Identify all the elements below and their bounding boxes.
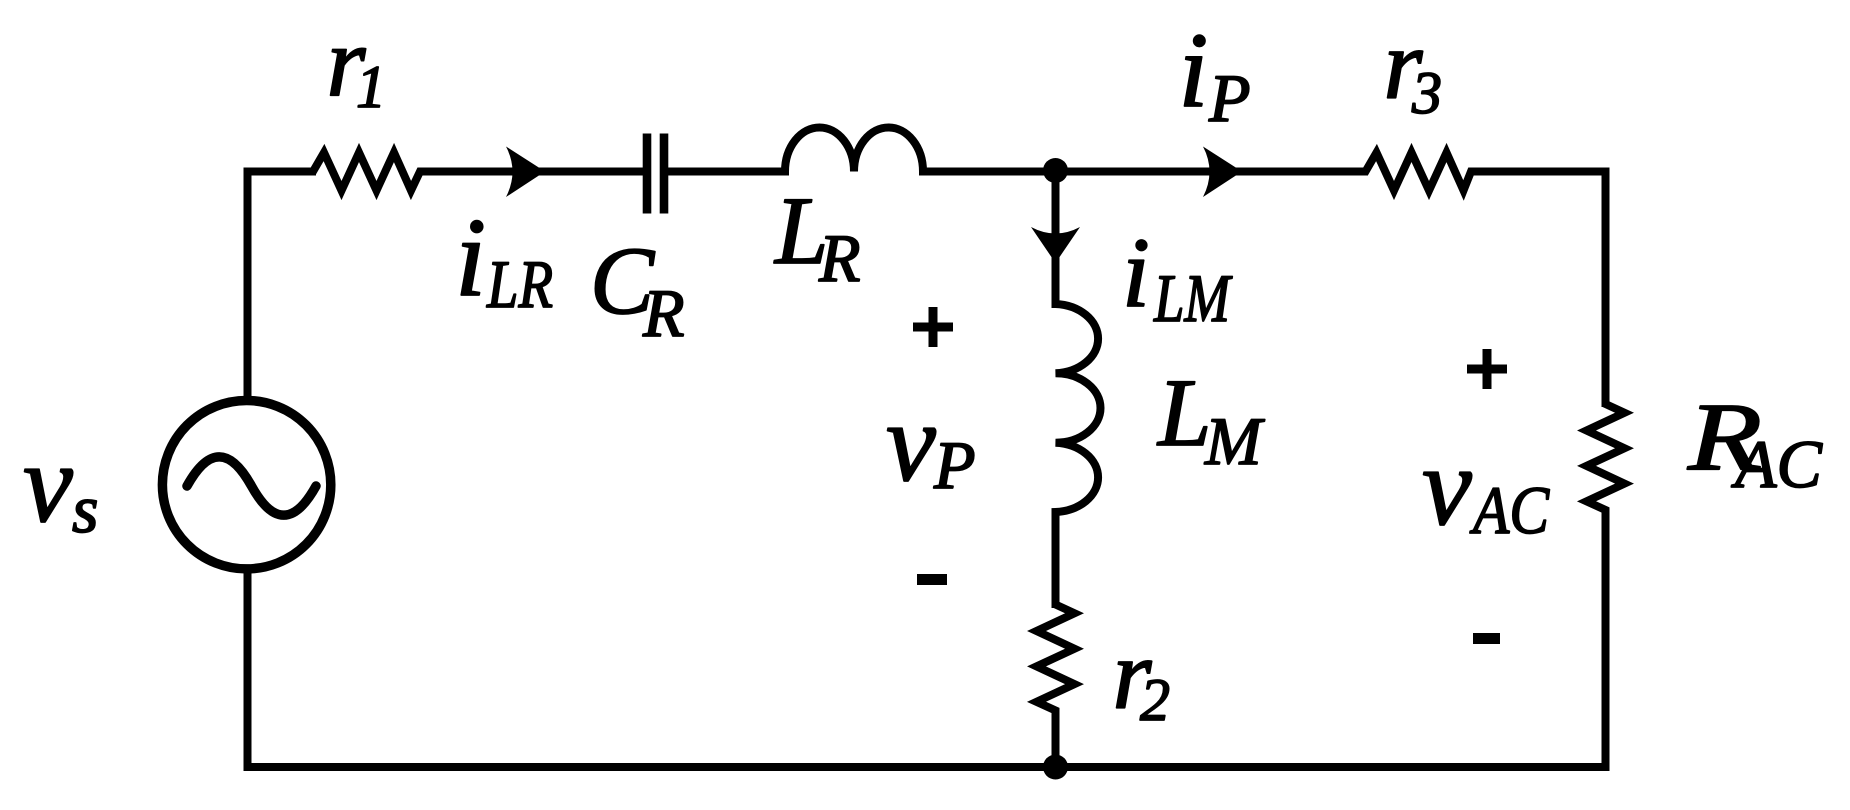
- svg-text:v: v: [1422, 425, 1472, 549]
- wire inductor LM to r2: [1052, 512, 1060, 608]
- plus sign for vP: [913, 307, 953, 347]
- svg-text:R: R: [818, 220, 861, 296]
- svg-text:AC: AC: [1470, 472, 1550, 548]
- wire r3 to top-right corner down to RAC: [1471, 172, 1606, 408]
- wire capacitor right plate to inductor LR: [668, 168, 789, 176]
- svg-text:s: s: [72, 471, 98, 547]
- resistor RAC: [1587, 401, 1625, 513]
- svg-text:LM: LM: [1153, 260, 1232, 336]
- svg-text:LR: LR: [486, 246, 553, 322]
- inductor LM: [1056, 300, 1101, 516]
- svg-text:AC: AC: [1731, 426, 1823, 502]
- resistor r2: [1037, 602, 1075, 714]
- capacitor CR plates: [643, 134, 669, 214]
- svg-text:i: i: [1122, 217, 1150, 328]
- svg-text:v: v: [886, 381, 936, 505]
- svg-text:3: 3: [1411, 60, 1442, 126]
- svg-text:i: i: [1179, 12, 1209, 130]
- arrow current iP: [1203, 147, 1242, 198]
- resistor r1: [310, 153, 423, 191]
- source vs circle: [162, 401, 330, 569]
- resistor r3: [1362, 153, 1474, 191]
- svg-text:P: P: [1208, 60, 1251, 136]
- svg-text:L: L: [1156, 359, 1211, 466]
- svg-text:P: P: [933, 427, 976, 503]
- wire r1 to capacitor left plate: [420, 168, 643, 176]
- arrow current iLR: [506, 147, 545, 198]
- node A top junction dot: [1043, 158, 1068, 183]
- node B bottom junction dot: [1043, 755, 1068, 780]
- source vs sine wave: [187, 457, 316, 515]
- svg-text:1: 1: [356, 54, 386, 120]
- wire RAC to bottom-right corner, bottom wire, left riser to source: [248, 510, 1606, 767]
- wire inductor LR through node A to r3: [923, 168, 1368, 176]
- wire left riser top + top-left corner to r1: [248, 172, 317, 403]
- svg-text:M: M: [1204, 403, 1265, 479]
- wire r2 to bottom node B: [1052, 710, 1060, 767]
- inductor LR: [781, 128, 927, 172]
- minus sign for vP: [917, 574, 947, 585]
- svg-text:i: i: [455, 196, 486, 320]
- minus sign for vAC: [1473, 633, 1500, 644]
- svg-text:v: v: [23, 422, 73, 546]
- arrow current iLM: [1031, 227, 1080, 263]
- svg-text:2: 2: [1140, 667, 1170, 733]
- plus sign for vAC: [1467, 349, 1507, 389]
- svg-text:R: R: [642, 275, 685, 351]
- wire node A down to inductor LM: [1052, 172, 1060, 309]
